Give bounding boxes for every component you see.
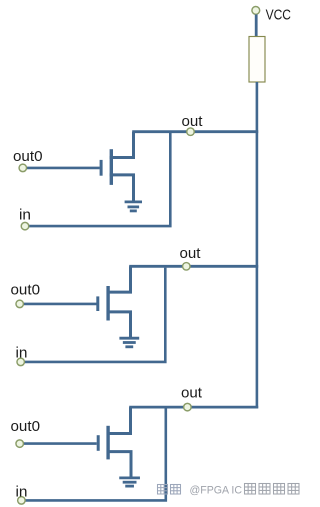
svg-text:VCC: VCC — [266, 6, 292, 23]
ground symbol (stage 3) — [119, 478, 140, 486]
wire drain M1 to out node — [110, 132, 134, 158]
wire source M1 to ground — [110, 175, 134, 202]
wire in to out node (stage 1) — [29, 133, 170, 226]
node in terminal (stage 1) — [21, 222, 29, 230]
transistor M1 (NMOS) — [101, 149, 111, 185]
watermark: Zhihu logo + @FPGA IC text — [158, 484, 300, 497]
svg-text:out: out — [182, 113, 204, 130]
node in terminal (stage 2) — [17, 358, 25, 366]
svg-text:out: out — [180, 245, 202, 262]
svg-text:in: in — [16, 484, 28, 501]
transistor M3 (NMOS) — [98, 426, 108, 460]
wire gate M1 from out0 terminal — [27, 167, 100, 170]
wire source M3 to ground — [107, 452, 132, 478]
wire source M2 to ground — [107, 312, 131, 338]
wire VCC terminal to resistor R1 — [255, 15, 258, 38]
wire in to out node (stage 2) — [25, 268, 166, 362]
node in terminal (stage 3) — [18, 497, 26, 505]
svg-text:@FPGA IC: @FPGA IC — [190, 485, 243, 497]
svg-text:in: in — [16, 345, 28, 362]
ground symbol (stage 1) — [125, 202, 142, 211]
node out terminal M1 — [187, 128, 195, 136]
resistor R1 (pull-up) — [249, 37, 265, 83]
wire in to out node (stage 3) — [25, 408, 165, 500]
svg-text:in: in — [19, 207, 31, 224]
node out0 terminal (stage 2) — [16, 300, 24, 308]
wire gate M3 from out0 terminal — [24, 442, 97, 445]
svg-text:out0: out0 — [13, 148, 43, 165]
wire drain M2 to out node — [107, 266, 131, 292]
svg-text:out0: out0 — [11, 282, 41, 299]
wire drain M3 to out node — [107, 407, 131, 433]
node out0 terminal (stage 1) — [19, 164, 27, 172]
wire VCC bus (resistor to stage-3 out node) — [256, 82, 259, 408]
node out terminal M2 — [183, 263, 191, 271]
node out terminal M3 — [184, 403, 192, 411]
wire gate M2 from out0 terminal — [24, 303, 97, 306]
node out0 terminal (stage 3) — [16, 440, 24, 448]
node VCC terminal — [252, 6, 260, 14]
svg-text:out0: out0 — [11, 418, 41, 435]
transistor M2 (NMOS) — [98, 286, 108, 321]
wire out node (stage 1 drain to VCC bus) — [132, 130, 258, 133]
svg-text:out: out — [181, 385, 203, 402]
wire out node (stage 3 drain to VCC bus) — [129, 406, 258, 409]
ground symbol (stage 2) — [119, 338, 139, 347]
wire out node (stage 2 drain to VCC bus) — [129, 265, 258, 268]
